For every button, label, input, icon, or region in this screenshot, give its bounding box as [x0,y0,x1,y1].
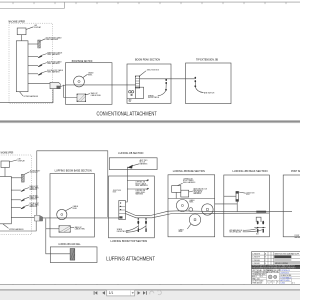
svg-text:1 2345678: 1 2345678 [252,253,260,255]
svg-text:XX 1: XX 1 [260,276,263,278]
svg-text:REEL: REEL [189,201,193,203]
svg-text:R HORNBACK: R HORNBACK [280,276,292,279]
svg-text:LUFFING JIB: LUFFING JIB [135,190,145,192]
svg-text:1/1: 1/1 [270,281,272,283]
svg-text:DISPLAY: DISPLAY [18,159,26,162]
svg-text:B: B [277,281,278,283]
svg-text:MACHINE UPPER: MACHINE UPPER [9,20,26,23]
svg-text:BOOM PEAK SECTION: BOOM PEAK SECTION [135,58,160,61]
svg-text:LUFFING JIB BASE SECTION: LUFFING JIB BASE SECTION [173,170,205,173]
svg-text:POINT: POINT [295,235,300,237]
svg-text:BLOCK: BLOCK [140,162,146,164]
svg-text:MACHINE UPPER: MACHINE UPPER [1,151,14,154]
svg-text:REEL: REEL [179,231,183,233]
svg-text:UPPER HARNESS: UPPER HARNESS [24,95,39,98]
svg-text:B: B [265,257,266,259]
svg-text:LUFFING BOOM TOP SECTION: LUFFING BOOM TOP SECTION [111,240,148,243]
svg-text:LUFFING JIB: LUFFING JIB [135,182,145,184]
svg-text:CABLE REEL: CABLE REEL [75,228,85,231]
svg-text:CONVENTIONAL ATTACHMENT: CONVENTIONAL ATTACHMENT [97,112,158,118]
svg-text:ATB SWITCH: ATB SWITCH [204,91,215,94]
svg-text:JUNCTION: JUNCTION [113,190,122,192]
svg-text:RECEPTACLE: RECEPTACLE [148,96,160,99]
svg-text:POINT SECTION: POINT SECTION [291,170,300,173]
svg-text:1/1: 1/1 [109,291,114,295]
svg-text:CABLE REEL: CABLE REEL [91,94,101,97]
svg-text:LUFFING JIB PEAK SECTION: LUFFING JIB PEAK SECTION [233,170,268,173]
svg-text:1 2345679: 1 2345679 [252,257,260,259]
svg-text:REEL: REEL [73,208,77,210]
svg-text:DISPLAY: DISPLAY [34,26,42,29]
svg-text:REEL: REEL [88,74,92,76]
svg-text:TIP EXTENSION JIB: TIP EXTENSION JIB [196,58,218,61]
svg-text:1 2345680: 1 2345680 [252,260,260,262]
svg-text:OTHERWISE SPEC: OTHERWISE SPEC [252,274,266,276]
svg-text:JUNCTION BOX: JUNCTION BOX [147,70,160,72]
svg-text:LUFFING ATTACHMENT: LUFFING ATTACHMENT [106,257,155,263]
svg-text:LUFFING BOOM BASE SECTION: LUFFING BOOM BASE SECTION [55,170,92,173]
svg-text:LUFFING JIB SECTION: LUFFING JIB SECTION [118,152,143,155]
svg-text:UPPER HARNESS: UPPER HARNESS [9,228,24,231]
svg-text:LUFFING JIB LOAD CELL: LUFFING JIB LOAD CELL [59,243,82,246]
